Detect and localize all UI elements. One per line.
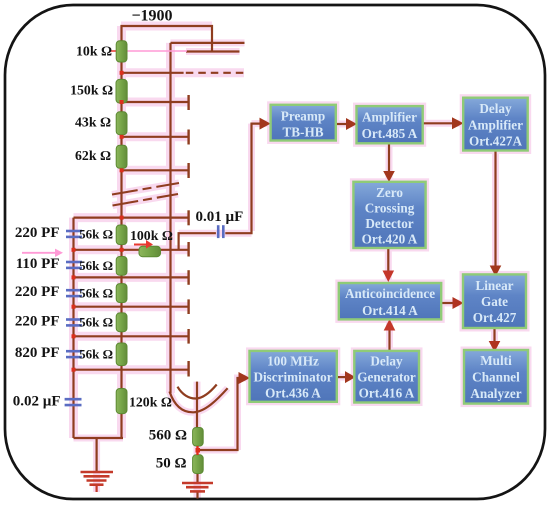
ground G1 bbox=[81, 472, 114, 492]
wire: bottom return bbox=[74, 437, 124, 439]
resistor R12 560 bbox=[193, 428, 204, 447]
svg-text:Ort.416 A: Ort.416 A bbox=[359, 385, 415, 400]
svg-text:Multi: Multi bbox=[480, 353, 512, 368]
svg-text:Crossing: Crossing bbox=[365, 200, 415, 215]
pink annotation arrow at node D6 bbox=[22, 249, 63, 257]
potentiometer R11 100k body bbox=[139, 246, 161, 257]
anode cup outer electrode bbox=[170, 388, 228, 412]
resistor R10 120k bbox=[116, 389, 127, 414]
wire: preamp to amplifier bbox=[336, 123, 348, 125]
dynode bar at node D8 bbox=[187, 299, 189, 314]
svg-text:220 PF: 220 PF bbox=[15, 225, 60, 241]
capacitor C2 110PF bbox=[66, 262, 82, 268]
wire: coupling cap to preamp bbox=[225, 124, 261, 234]
svg-text:10k Ω: 10k Ω bbox=[76, 44, 112, 59]
wire: left capacitor rail bbox=[72, 218, 74, 438]
svg-text:Delay: Delay bbox=[370, 353, 403, 368]
svg-text:Ort.485 A: Ort.485 A bbox=[362, 126, 418, 141]
block boxes bbox=[250, 98, 529, 404]
box U1 Preamp bbox=[271, 105, 336, 141]
wire: ZCD down to anticoincidence bbox=[387, 248, 389, 272]
wire: node D8 bbox=[74, 306, 189, 308]
svg-text:Preamp: Preamp bbox=[281, 108, 325, 123]
svg-text:62k Ω: 62k Ω bbox=[75, 148, 111, 163]
svg-text:Gate: Gate bbox=[481, 294, 508, 309]
box U6 Linear Gate Ort.427 bbox=[463, 274, 526, 328]
svg-text:Ort.420 A: Ort.420 A bbox=[362, 231, 418, 246]
resistor R8 56k bbox=[116, 313, 127, 332]
svg-text:Analyzer: Analyzer bbox=[470, 386, 521, 401]
wire: node D1 dashed continuation bbox=[186, 72, 245, 74]
svg-text:Discriminator: Discriminator bbox=[253, 369, 332, 384]
dynode bar at node D7 bbox=[187, 270, 189, 285]
resistor R7 56k bbox=[116, 284, 127, 303]
arrow delay amplifier into linear gate bbox=[490, 266, 502, 277]
wire: node D2 bbox=[122, 101, 189, 103]
svg-text:220 PF: 220 PF bbox=[15, 284, 60, 300]
wire: 560-50 junction tap to discriminator bbox=[198, 378, 241, 450]
svg-text:43k Ω: 43k Ω bbox=[75, 114, 111, 129]
pink halo layer bbox=[74, 26, 529, 498]
svg-text:Detector: Detector bbox=[365, 216, 413, 231]
svg-text:Ort.427A: Ort.427A bbox=[469, 134, 523, 149]
dynode bar at node D3 bbox=[187, 130, 189, 145]
box U7 100MHz Discriminator Ort.436A bbox=[250, 351, 337, 402]
svg-text:Anticoincidence: Anticoincidence bbox=[345, 286, 435, 301]
capacitor C6 0.02uF bbox=[65, 399, 82, 405]
anode cup inner electrode bbox=[178, 385, 217, 399]
wire: ground stub to frame bbox=[196, 492, 198, 499]
svg-text:150k Ω: 150k Ω bbox=[70, 83, 113, 98]
svg-text:50 Ω: 50 Ω bbox=[156, 456, 187, 472]
arrow into discriminator bbox=[239, 372, 251, 384]
wire: delay amplifier down to linear gate bbox=[494, 151, 496, 267]
wire: PMT inner rail bbox=[169, 43, 171, 393]
arrow ZCD down into anticoincidence bbox=[383, 271, 395, 283]
svg-text:Ort.427: Ort.427 bbox=[473, 310, 517, 325]
svg-text:Delay: Delay bbox=[479, 101, 512, 116]
box U4 Zero Crossing Detector Ort.420A bbox=[353, 182, 425, 248]
capacitor C5 820PF bbox=[66, 351, 82, 357]
break slash 2 bbox=[113, 194, 179, 206]
wire: amplifier down to ZCD bbox=[388, 143, 390, 172]
wire: node D7 bbox=[74, 276, 189, 278]
box U9 Multi Channel Analyzer bbox=[464, 350, 528, 404]
svg-text:110 PF: 110 PF bbox=[16, 256, 60, 272]
svg-text:56k Ω: 56k Ω bbox=[79, 227, 113, 242]
resistor R4 62k bbox=[116, 145, 127, 168]
wire: anode pin bbox=[196, 382, 198, 428]
svg-text:56k Ω: 56k Ω bbox=[79, 285, 113, 300]
svg-text:0.01 µF: 0.01 µF bbox=[196, 209, 244, 225]
capacitor C3 220PF bbox=[66, 290, 82, 296]
junction dots bbox=[72, 71, 201, 453]
svg-text:820 PF: 820 PF bbox=[15, 345, 60, 361]
arrow linear gate down into MCA bbox=[489, 341, 501, 352]
dynode bar at node D10 bbox=[187, 361, 189, 377]
resistor R5 56k bbox=[116, 225, 127, 245]
wire: linear gate down to MCA bbox=[493, 328, 495, 343]
break slash 1 bbox=[112, 183, 179, 195]
wire: node D1 solid part bbox=[122, 72, 184, 74]
wire: node D5 bbox=[74, 217, 189, 219]
svg-text:100k Ω: 100k Ω bbox=[130, 228, 173, 243]
resistor R1 10k bbox=[116, 41, 127, 62]
arrow discriminator to delay generator bbox=[345, 371, 355, 383]
svg-text:Amplifier: Amplifier bbox=[362, 109, 417, 124]
wire: resistor chain rail bbox=[120, 40, 122, 438]
svg-text:120k Ω: 120k Ω bbox=[129, 394, 172, 409]
resistor R13 50 bbox=[193, 455, 204, 474]
svg-text:56k Ω: 56k Ω bbox=[79, 346, 113, 361]
box U8 Delay Generator Ort.416A bbox=[354, 351, 419, 403]
arrow amplifier down into ZCD bbox=[383, 171, 395, 182]
capacitor C4 220PF bbox=[66, 320, 82, 326]
wire: node D6 bbox=[74, 249, 189, 251]
svg-text:Channel: Channel bbox=[472, 370, 520, 385]
svg-text:TB-HB: TB-HB bbox=[282, 124, 323, 139]
wire: HV top rail from -1900 bbox=[122, 26, 213, 52]
arrow delay generator up into anticoincidence bbox=[384, 319, 396, 331]
ground G2 bbox=[182, 483, 213, 491]
svg-text:−1900: −1900 bbox=[131, 8, 172, 25]
svg-text:Ort.436 A: Ort.436 A bbox=[265, 385, 321, 400]
arrow amplifier to delay amplifier bbox=[452, 117, 464, 129]
svg-text:Ort.414 A: Ort.414 A bbox=[362, 303, 418, 318]
arrow into preamp bbox=[260, 118, 271, 130]
wire: node D3 bbox=[122, 136, 189, 138]
svg-text:Generator: Generator bbox=[357, 369, 416, 384]
svg-text:560 Ω: 560 Ω bbox=[149, 428, 187, 444]
capacitor C7 0.01uF coupling bbox=[218, 225, 223, 238]
potentiometer R11 wiper arrow bbox=[134, 240, 153, 249]
dynode bar at node D9 bbox=[187, 329, 189, 344]
wire: node D10 bbox=[74, 369, 189, 371]
resistor R3 43k bbox=[116, 112, 127, 135]
dynode bar at node D2 bbox=[187, 95, 189, 110]
pink annotation line through R1 bbox=[111, 50, 188, 52]
svg-text:0.02 µF: 0.02 µF bbox=[13, 393, 61, 409]
resistor R9 56k bbox=[116, 343, 127, 366]
svg-text:56k Ω: 56k Ω bbox=[79, 315, 113, 330]
svg-text:Linear: Linear bbox=[475, 278, 513, 293]
box U5 Anticoincidence Ort.414A bbox=[339, 283, 441, 319]
arrow anticoincidence to linear gate bbox=[453, 297, 464, 309]
resistor R6 56k bbox=[116, 257, 127, 276]
wire: amplifier to delay amplifier bbox=[423, 122, 455, 124]
svg-text:100 MHz: 100 MHz bbox=[267, 353, 319, 368]
wire: node D4 bbox=[122, 169, 189, 171]
wire: cathode lead at y=43 bbox=[171, 42, 245, 44]
resistor R2 150k bbox=[116, 79, 127, 103]
dynode bar at node D4 bbox=[187, 163, 189, 178]
wire: delay generator up to anticoincidence bbox=[388, 330, 390, 351]
red link between 560 and 50 bbox=[196, 446, 198, 455]
wire: grid lead at y=51.5 bbox=[186, 50, 240, 52]
wire: below 50 ohm to ground bbox=[196, 474, 198, 483]
svg-text:56k Ω: 56k Ω bbox=[79, 258, 113, 273]
wire: node D9 bbox=[74, 335, 189, 337]
svg-text:220 PF: 220 PF bbox=[15, 314, 60, 330]
box U3 Delay Amplifier Ort.427A bbox=[463, 98, 528, 151]
wire: ground drop left bbox=[95, 438, 97, 471]
wire: anode pickup to coupling cap bbox=[179, 233, 216, 250]
dynode bar at node D5 bbox=[187, 210, 189, 225]
wire: anticoincidence to linear gate bbox=[441, 302, 454, 304]
wire: discriminator to delay generator bbox=[337, 376, 347, 378]
arrow preamp to amplifier bbox=[346, 118, 357, 130]
capacitor C1 220PF bbox=[66, 231, 82, 237]
svg-text:Amplifier: Amplifier bbox=[468, 118, 523, 133]
box U2 Amplifier Ort.485A bbox=[357, 106, 423, 143]
dynode bar at node D6 bbox=[187, 242, 189, 257]
svg-text:Zero: Zero bbox=[376, 185, 403, 200]
